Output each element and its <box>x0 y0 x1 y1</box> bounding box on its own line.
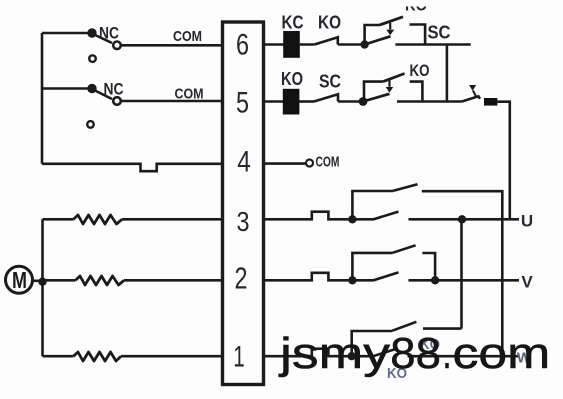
actuator arrow row5 right <box>469 85 476 91</box>
wire vertical U dot to row1 branch <box>460 219 463 328</box>
wire row6 right stub <box>264 43 284 46</box>
svg-text:KC: KC <box>282 12 304 32</box>
svg-text:3: 3 <box>237 206 250 237</box>
svg-text:1: 1 <box>233 341 245 374</box>
wire KO to switch SC <box>299 100 314 103</box>
wire row6 resume <box>395 43 470 46</box>
wire row2 winding to terminal 2 <box>124 279 223 282</box>
wire row5 stub from bus <box>42 87 90 90</box>
svg-text:NC: NC <box>99 24 119 43</box>
terminal block TB1 <box>223 22 264 385</box>
wire left bottom vertical bus <box>41 219 44 356</box>
switch KO row6 closed blade <box>314 37 337 44</box>
winding R2 (phase 2) <box>76 276 125 285</box>
svg-text:COM: COM <box>173 28 202 45</box>
wire row2 resume to V <box>409 279 520 282</box>
NC contact 2 blade <box>94 90 112 99</box>
junction row2 hook dot <box>431 276 439 284</box>
junction row1 dot <box>348 352 356 360</box>
switch row5 upper blade <box>383 74 404 82</box>
wire row1 winding to terminal 1 <box>121 355 223 358</box>
NC contact 2 hinge circle <box>113 97 121 105</box>
svg-text:4: 4 <box>237 146 251 179</box>
contact SC hook row6 <box>410 25 426 45</box>
svg-text:COM: COM <box>316 153 340 170</box>
switch row5 moving blade <box>363 94 390 102</box>
wire motor to bus <box>33 279 41 282</box>
NC contact 2 common dot <box>87 84 96 93</box>
wire switch to junction row5 <box>338 100 360 103</box>
svg-text:KO: KO <box>405 0 427 15</box>
switch row3 moving blade <box>352 212 398 220</box>
wire row1 left <box>43 355 74 358</box>
label KO top cut <box>405 0 427 15</box>
svg-text:KO: KO <box>410 61 430 80</box>
wire switch to junction row6 <box>338 43 361 46</box>
wire left top vertical bus <box>41 33 44 164</box>
svg-text:SC: SC <box>319 72 341 92</box>
svg-text:KO: KO <box>318 13 341 33</box>
wire row3 branch up <box>352 191 393 219</box>
wire row5 to terminal 5 <box>120 100 223 103</box>
junction row5 dot <box>359 97 368 106</box>
switch row3 upper blade <box>393 184 418 191</box>
switch row6 upper blade <box>380 17 404 25</box>
wire row1 branch up <box>352 331 392 356</box>
wire row5 resume <box>397 100 462 103</box>
wire row5 branch up <box>364 82 383 102</box>
NC contact 1 common dot <box>87 28 96 37</box>
wire row3 with bump <box>264 212 349 220</box>
contact KO hook row5 <box>410 82 423 102</box>
svg-text:KO: KO <box>281 69 303 89</box>
COM terminal circle row4 <box>306 160 313 167</box>
wire row6 to terminal 6 <box>120 44 223 47</box>
switch row1 moving blade <box>352 348 398 356</box>
motor M1 circle <box>6 266 33 293</box>
switch row6 moving blade <box>365 36 391 44</box>
junction row6 dot <box>360 40 368 48</box>
contact hook row2 to V <box>422 253 435 280</box>
NC contact 1 blade <box>94 35 112 44</box>
actuator arrow row5 <box>388 80 390 87</box>
svg-text:.: . <box>443 329 452 378</box>
switch SC row5 closed blade <box>314 94 338 101</box>
wire row3 resume to U <box>409 218 520 221</box>
wire row1 with bump <box>264 349 348 357</box>
wire KC to switch KO <box>298 43 314 46</box>
svg-text:M: M <box>12 267 27 293</box>
actuator arrow row6 <box>389 23 391 30</box>
wire row2 left <box>43 279 76 282</box>
junction row2 dot <box>348 276 356 284</box>
wire row1 upper fixed to vertical <box>423 327 462 330</box>
switch row1 upper blade <box>392 322 416 331</box>
svg-text:U: U <box>521 212 533 231</box>
wire row4 with notch to terminal 4 <box>42 164 223 171</box>
svg-text:2: 2 <box>235 261 248 296</box>
wire row6 to row5 vertical <box>446 45 449 102</box>
NC contact 1 hinge circle <box>113 42 121 50</box>
winding R1 (phase 3) <box>74 215 123 224</box>
wire row2 with bump <box>264 273 349 281</box>
wire vertical 502 U to W <box>501 219 504 356</box>
contact KC coil block <box>283 31 300 58</box>
svg-text:com: com <box>453 329 551 378</box>
svg-text:5: 5 <box>236 87 249 120</box>
wire row6 stub from bus <box>42 32 90 35</box>
svg-text:V: V <box>521 273 533 292</box>
wire row5 box to corner down <box>497 102 509 220</box>
svg-text:6: 6 <box>236 29 249 62</box>
wire row3 winding to terminal 3 <box>122 218 223 221</box>
wire row1 resume to W <box>408 355 520 358</box>
svg-text:jsmy: jsmy <box>278 329 390 378</box>
switch row5 right blade <box>462 96 480 101</box>
wire row4 right stub <box>264 162 306 165</box>
NC contact 2 spare terminal circle <box>87 121 94 128</box>
wire row3 upper fixed to U corner <box>422 191 503 219</box>
svg-text:SC: SC <box>428 23 451 43</box>
wire row5 right stub <box>264 100 285 103</box>
switch row2 upper blade <box>393 245 416 253</box>
terminal box row5 right <box>484 98 497 106</box>
NC contact 1 spare terminal circle <box>89 55 96 62</box>
wire row2 branch up <box>352 253 392 280</box>
svg-text:COM: COM <box>175 86 204 103</box>
wire row6 branch up <box>365 25 380 45</box>
junction row3 dot <box>348 215 356 223</box>
wire row3 left <box>43 218 74 221</box>
junction U dot <box>458 215 466 223</box>
svg-text:88: 88 <box>390 329 441 378</box>
switch row2 moving blade <box>352 272 398 280</box>
contact KO coil block <box>283 89 300 115</box>
junction motor bus dot <box>38 278 46 286</box>
svg-text:NC: NC <box>104 80 124 99</box>
winding R3 (phase 1) <box>74 352 122 361</box>
